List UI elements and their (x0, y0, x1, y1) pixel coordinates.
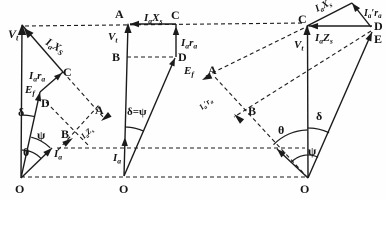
middle diagram: phasor I_aX_s (C to A) (130, 23, 176, 25)
svg-text:D: D (178, 50, 187, 64)
left diagram: angle arc theta (22, 150, 41, 159)
left diagram: angle arc delta (21, 115, 34, 116)
svg-text:δ=ψ: δ=ψ (127, 106, 147, 118)
svg-text:B: B (61, 127, 69, 141)
middle diagram: phasor E_f (O to D) (124, 58, 175, 176)
left diagram: dashed line through B up to A (58, 105, 99, 150)
svg-text:δ: δ (316, 109, 322, 123)
svg-text:B: B (248, 104, 256, 118)
left diagram: dashed line from C down-right to A (63, 72, 104, 118)
svg-text:δ: δ (18, 105, 24, 119)
svg-text:D: D (374, 19, 383, 33)
right diagram: dashed line C to A (204, 25, 310, 77)
svg-text:E: E (374, 32, 382, 46)
bottom horizontal dashed construction line O to O (21, 176, 306, 178)
svg-text:O: O (15, 182, 24, 196)
svg-text:A: A (95, 103, 104, 117)
right diagram: phasor I_a r_a (D to X_s tip) with arrowhead (352, 3, 371, 27)
right diagram: phasor V_t (O to C) (307, 26, 310, 178)
left diagram: angle arc psi (31, 137, 50, 148)
middle diagram: phasor V_t (O to A) (124, 24, 128, 176)
svg-text:θ: θ (278, 123, 284, 137)
left diagram: small arrow near A pointing down-left (101, 112, 112, 121)
middle diagram: I_a arrowhead on V_t line (122, 137, 128, 146)
middle diagram: dashed line B to D (127, 56, 174, 58)
left diagram: phasor V_t (21, 25, 22, 178)
top horizontal dashed construction line (25, 23, 305, 26)
right diagram: small arrow near B pointing up-left (234, 114, 244, 124)
right diagram: angle arc psi (291, 155, 318, 162)
right diagram: arrowhead at A end of dashed line (202, 73, 212, 80)
svg-text:A: A (115, 7, 124, 21)
svg-text:C: C (298, 12, 307, 26)
right diagram: dashed line from E corner down-left through B (234, 31, 371, 117)
right diagram: phasor I_aZ_s (D to C) (309, 25, 372, 27)
svg-text:θ: θ (23, 145, 29, 159)
middle horizontal dashed construction line through I_a tip (57, 147, 305, 149)
middle diagram: angle arc delta=psi (126, 127, 144, 131)
left diagram: phasor I_a (21, 148, 52, 178)
right diagram: dashed line O through B to A (213, 75, 308, 178)
svg-text:ψ: ψ (308, 144, 317, 158)
right diagram: angle arc delta (308, 128, 329, 133)
svg-text:D: D (41, 96, 50, 110)
middle diagram: phasor I_a r_a (D to C) (175, 24, 177, 57)
right diagram: angle arc theta (274, 130, 308, 145)
left diagram: phasor I_aX_s (from C to V_t tip) (22, 25, 63, 72)
right diagram: phasor I_a' (O up-left) (277, 149, 308, 178)
right diagram: phasor I_aX_s segment (307, 3, 352, 26)
svg-text:O: O (119, 182, 128, 196)
svg-text:C: C (171, 8, 180, 22)
svg-text:ψ: ψ (37, 128, 46, 142)
left diagram: small arrow at B (62, 138, 73, 147)
svg-text:B: B (112, 50, 120, 64)
right diagram: phasor E_f (O to E) (308, 32, 372, 178)
left diagram: dashed line from D down-right (46, 102, 90, 147)
svg-text:C: C (63, 65, 72, 79)
svg-text:O: O (300, 182, 309, 196)
svg-text:A: A (208, 63, 217, 77)
left diagram: phasor E_f (21, 92, 40, 178)
left diagram: phasor I_a r_a (from E_f tip to C) (40, 72, 63, 92)
